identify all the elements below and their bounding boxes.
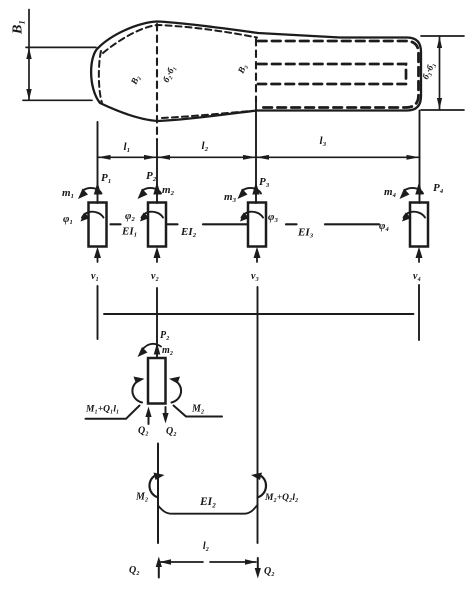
free body m2 arrowhead — [138, 347, 148, 357]
P4 force arrowhead — [415, 182, 422, 195]
node 3 long axis — [257, 287, 259, 543]
svg-text:P₄: P₄ — [433, 182, 444, 194]
free body Q2 up arrowhead — [145, 407, 151, 418]
svg-text:Q₂: Q₂ — [129, 565, 140, 576]
rotation phi2 arc — [142, 212, 164, 218]
EI link lines — [111, 223, 380, 225]
rear inner dashed rectangle — [258, 64, 406, 84]
svg-text:φ₃: φ₃ — [268, 211, 278, 223]
l dim arrowheads — [98, 155, 111, 160]
moment m4 arc — [405, 188, 423, 194]
bottom beam left vertical — [157, 444, 159, 544]
dimension B3 line — [439, 37, 441, 110]
bottom Q2 down arrowhead — [255, 568, 261, 579]
svg-text:l₂: l₂ — [202, 140, 209, 152]
bottom l2 dimension line — [160, 561, 256, 563]
svg-text:Q₂: Q₂ — [264, 566, 275, 577]
car body dashed inner contour (top) — [103, 25, 257, 53]
svg-text:m₂: m₂ — [162, 345, 173, 356]
B3 dim arrowheads — [437, 37, 442, 48]
node 2 axis to free body — [156, 288, 158, 358]
v1 arrow shaft — [97, 250, 99, 262]
svg-text:l₂: l₂ — [203, 541, 209, 552]
free body right cut line — [174, 406, 223, 417]
free body Q2 down arrowhead — [162, 413, 168, 424]
section line node 2 (dashed through body) — [156, 24, 158, 140]
rotation phi4 arc — [404, 212, 426, 218]
v3 arrowhead — [254, 247, 261, 258]
svg-text:φ₁: φ₁ — [63, 213, 73, 225]
svg-text:m₁: m₁ — [62, 187, 74, 199]
svg-text:EI₁: EI₁ — [121, 226, 137, 238]
node 1 tick — [97, 286, 99, 339]
svg-text:m₂: m₂ — [162, 184, 175, 196]
mass 3 rectangle — [248, 203, 266, 247]
free body left moment arrowhead — [134, 377, 145, 384]
P3 force arrowhead — [252, 182, 259, 195]
moment m3 arc — [243, 188, 261, 194]
m1 arrowhead — [78, 189, 88, 200]
svg-text:φ₂: φ₂ — [125, 210, 135, 222]
P2 force arrowhead — [153, 182, 160, 195]
B1 dim arrowheads — [26, 48, 31, 59]
m2 arrowhead — [138, 189, 148, 200]
v1 arrowhead — [94, 247, 101, 258]
v4 arrowhead — [416, 247, 423, 258]
bottom Q2 up arrowhead — [156, 557, 162, 568]
svg-text:m₃: m₃ — [224, 191, 237, 203]
dimension B1 line — [28, 10, 30, 101]
svg-text:EI₃: EI₃ — [297, 227, 314, 239]
svg-text:EI₂: EI₂ — [199, 496, 216, 508]
m3 arrowhead — [238, 189, 248, 200]
dimension B3 leader lines (right) — [421, 36, 464, 110]
bottom beam elastic curve — [158, 505, 258, 514]
v4 arrow shaft — [418, 250, 420, 262]
mass 4 rectangle — [410, 203, 428, 247]
free body mass 2 rectangle — [148, 358, 166, 404]
svg-text:φ₄: φ₄ — [379, 220, 389, 232]
free body Q2 down arrow shaft — [165, 407, 167, 419]
free body Q2 up arrow shaft — [148, 411, 150, 424]
rear section bold dashed rounded rectangle — [258, 41, 419, 108]
phi3 arrowhead — [240, 213, 250, 222]
reference row horizontal line — [104, 313, 414, 315]
svg-text:l₃: l₃ — [320, 135, 327, 147]
svg-text:v₁: v₁ — [91, 271, 99, 282]
P1 force arrowhead — [94, 182, 101, 195]
node 4 tick — [418, 285, 420, 340]
car body solid outline — [91, 22, 421, 122]
svg-text:EI₂: EI₂ — [180, 226, 197, 238]
svg-text:M₂+Q₂l₂: M₂+Q₂l₂ — [264, 493, 298, 503]
svg-text:В₂: В₂ — [128, 73, 141, 86]
section line node 3 (dashed through body) — [255, 39, 257, 101]
node 1 axis line — [97, 122, 99, 203]
svg-text:Q₂: Q₂ — [138, 426, 149, 437]
bottom M2+Q2l2 arc right — [258, 475, 267, 498]
dimension B1 leader lines — [23, 47, 96, 100]
svg-text:б₃·б₃: б₃·б₃ — [420, 61, 436, 81]
rotation phi3 arc — [242, 212, 264, 218]
svg-text:v₃: v₃ — [251, 271, 259, 282]
node 2 axis line — [156, 140, 158, 203]
v2 arrowhead — [154, 247, 161, 258]
m4 arrowhead — [400, 189, 410, 200]
svg-text:m₄: m₄ — [384, 186, 397, 198]
bottom Q2 left up arrow shaft — [158, 562, 160, 578]
svg-text:l₁: l₁ — [124, 141, 131, 153]
bottom M2 arrowhead left — [154, 473, 165, 481]
node 3 axis line — [255, 101, 257, 203]
svg-text:M₂: M₂ — [135, 492, 148, 503]
free body P2 arrowhead — [154, 343, 161, 355]
phi1 arrowhead — [81, 213, 91, 222]
rotation phi1 arc — [82, 212, 104, 218]
bottom M2+Q2l2 arrowhead right — [251, 473, 262, 481]
free body left moment arc — [132, 380, 142, 403]
svg-text:б₂·б₁: б₂·б₁ — [161, 64, 177, 84]
moment m1 arc — [84, 188, 102, 194]
phi4 arrowhead — [402, 213, 412, 222]
node 4 axis line — [419, 111, 421, 204]
car body dashed inner contour (bottom) — [162, 111, 251, 118]
moment m2 arc — [143, 188, 161, 194]
bottom M2 arc left — [149, 475, 158, 498]
mass 1 rectangle — [89, 203, 107, 247]
svg-text:Q₂: Q₂ — [166, 426, 177, 437]
svg-text:v₄: v₄ — [413, 271, 421, 282]
svg-text:P₂: P₂ — [160, 330, 170, 341]
phi2 arrowhead — [140, 213, 150, 222]
svg-text:В₃: В₃ — [235, 62, 248, 75]
dimension line l1-l2-l3 — [98, 156, 420, 158]
svg-text:M₂: M₂ — [191, 404, 204, 415]
free body right moment arc — [172, 380, 182, 403]
free body right moment arrowhead — [169, 377, 180, 384]
free body left cut line — [86, 406, 140, 419]
mass 2 rectangle — [148, 203, 166, 247]
v3 arrow shaft — [256, 250, 258, 262]
bottom Q2 right down arrow shaft — [257, 558, 259, 573]
svg-text:M₁+Q₁l₁: M₁+Q₁l₁ — [85, 405, 119, 415]
free body m2 arc — [142, 344, 162, 351]
bottom l2 dim arrowheads — [160, 559, 172, 564]
v2 arrow shaft — [156, 250, 158, 262]
svg-text:P₂: P₂ — [146, 170, 157, 182]
svg-text:B₁: B₁ — [11, 20, 26, 35]
svg-text:v₂: v₂ — [151, 271, 159, 282]
car body dashed inner contour (nose) — [99, 51, 102, 103]
svg-text:P₁: P₁ — [101, 172, 112, 184]
svg-text:P₃: P₃ — [259, 176, 270, 188]
